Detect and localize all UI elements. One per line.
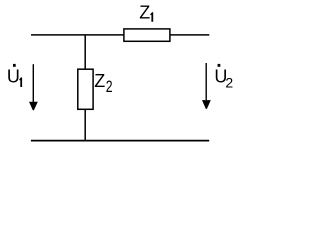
svg-text:2: 2 — [225, 74, 233, 90]
svg-text:Z: Z — [139, 3, 150, 23]
svg-text:2: 2 — [106, 78, 113, 96]
label U1 subscript 1 — [19, 77, 22, 87]
svg-text:U: U — [7, 66, 20, 86]
voltage arrow U1 head — [29, 102, 38, 111]
label Z1 subscript 1 — [150, 12, 153, 22]
wire junction to Z2 — [84, 35, 86, 70]
wire top-left segment — [31, 34, 124, 36]
overdot U1 — [13, 64, 16, 67]
wire Z2 to bottom — [84, 109, 86, 140]
impedance Z2 (shunt box) — [78, 69, 93, 109]
overdot U2 — [218, 64, 221, 67]
voltage arrow U2 line — [205, 63, 207, 100]
wire bottom — [31, 140, 209, 142]
impedance Z1 (series box) — [124, 29, 170, 41]
voltage arrow U2 head — [202, 100, 211, 109]
svg-text:Z: Z — [94, 71, 105, 91]
wire top-right segment — [170, 34, 209, 36]
voltage arrow U1 line — [32, 64, 34, 102]
